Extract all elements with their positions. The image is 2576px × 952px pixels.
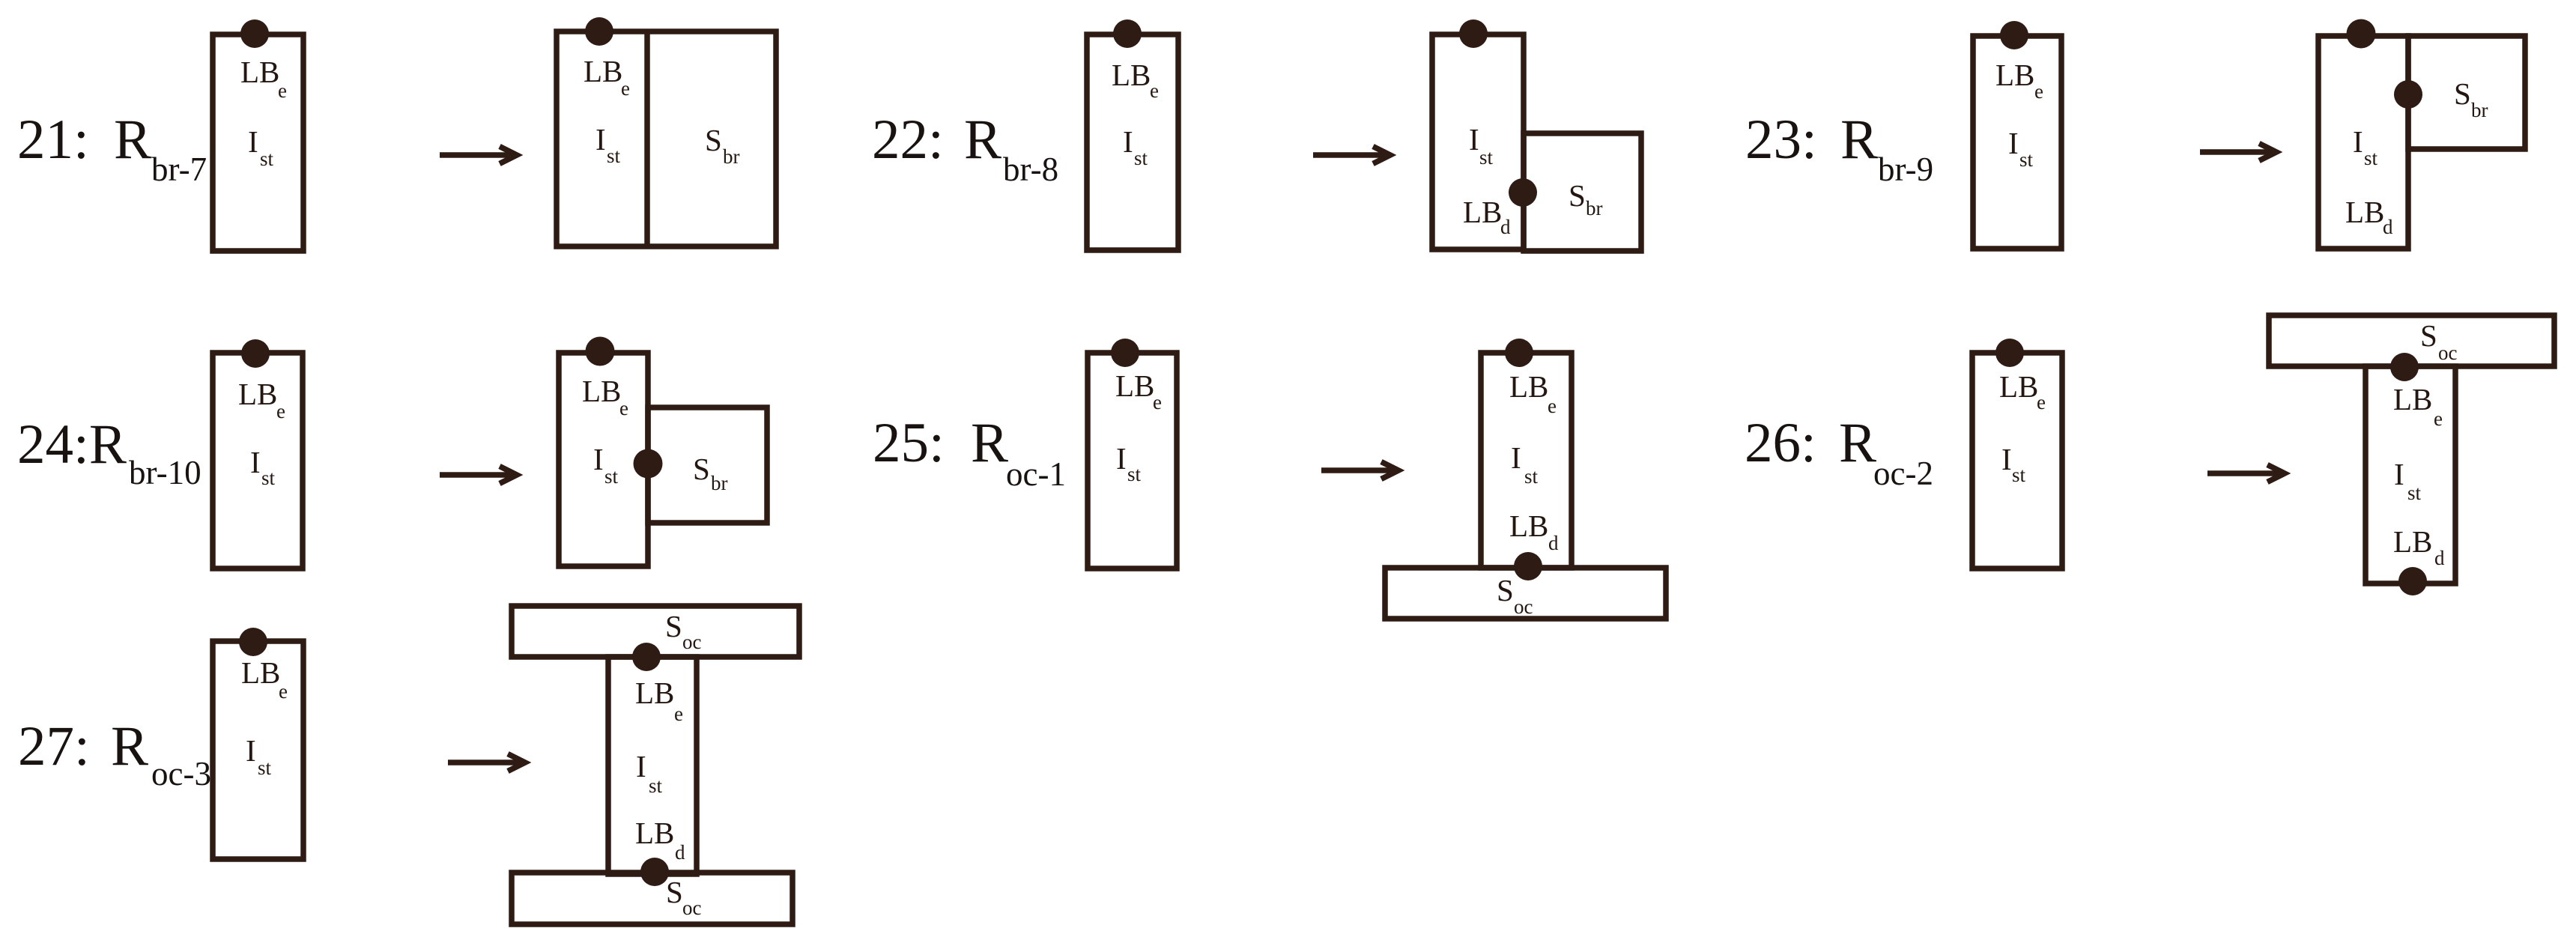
rule 21 LHS node dot: [240, 19, 269, 48]
rule 22 RHS top node dot: [1459, 19, 1488, 48]
rule 25 RHS junction node dot: [1514, 552, 1542, 580]
rule 25 RHS top node dot: [1505, 339, 1533, 367]
svg-text:I: I: [1469, 122, 1479, 157]
svg-text:st: st: [261, 467, 276, 489]
svg-text:I: I: [2394, 457, 2404, 491]
rule 22 LHS node dot: [1113, 19, 1142, 48]
rule 21 RHS box outer: [557, 31, 776, 246]
svg-text:26:: 26:: [1745, 412, 1816, 474]
svg-text:S: S: [666, 875, 683, 909]
svg-text:e: e: [278, 79, 287, 102]
rule 27 LHS node dot: [239, 628, 267, 656]
svg-text:e: e: [2037, 391, 2046, 413]
svg-text:R: R: [1840, 109, 1878, 171]
svg-text:e: e: [279, 680, 288, 703]
svg-text:S: S: [705, 123, 722, 157]
svg-text:25:: 25:: [873, 412, 945, 474]
rule 24 RHS tall box LB_e I_st: [559, 353, 648, 566]
svg-text:27:: 27:: [18, 715, 90, 777]
svg-text:LB: LB: [1509, 369, 1548, 404]
rule 27 RHS top S_oc bar: [512, 606, 799, 657]
svg-text:LB: LB: [635, 816, 674, 850]
svg-text:d: d: [1548, 532, 1559, 554]
svg-text:d: d: [1500, 216, 1511, 238]
rule 27 label R_oc-3: [18, 715, 211, 792]
rule 24 RHS S_br box: [648, 407, 767, 523]
rule 23 RHS top node dot: [2347, 19, 2376, 49]
rule 26 RHS S_oc bar: [2269, 315, 2554, 366]
rule 27 LHS box I_st: [213, 641, 303, 859]
svg-text:d: d: [675, 841, 685, 864]
svg-text:I: I: [1511, 440, 1521, 475]
svg-text:st: st: [1134, 147, 1148, 169]
rule 26 LHS box I_st: [1972, 353, 2062, 569]
svg-text:I: I: [2008, 126, 2019, 160]
svg-text:e: e: [2034, 80, 2043, 103]
rule 25 label R_oc-1: [873, 412, 1066, 493]
svg-text:br-10: br-10: [129, 454, 201, 491]
rule 25 RHS vertical box LB_e I_st LB_d: [1481, 353, 1572, 568]
svg-text:23:: 23:: [1745, 109, 1817, 171]
svg-text:LB: LB: [2393, 382, 2432, 416]
svg-text:LB: LB: [1999, 369, 2038, 404]
rule 22 RHS shared-edge node dot: [1509, 178, 1537, 207]
svg-text:st: st: [2012, 464, 2026, 486]
svg-text:st: st: [604, 465, 619, 488]
svg-text:e: e: [619, 397, 628, 419]
svg-text:oc-3: oc-3: [151, 755, 211, 792]
svg-text:LB: LB: [1995, 58, 2034, 92]
svg-text:LB: LB: [1463, 195, 1502, 229]
rule 25 LHS node dot: [1111, 339, 1139, 367]
svg-text:LB: LB: [238, 377, 277, 411]
svg-text:S: S: [665, 609, 682, 643]
svg-text:e: e: [621, 77, 630, 100]
svg-text:st: st: [2364, 147, 2378, 169]
svg-text:I: I: [2353, 124, 2363, 159]
svg-text:LB: LB: [584, 54, 622, 88]
rule 22 label R_br-8: [872, 109, 1058, 188]
svg-text:st: st: [649, 774, 663, 797]
svg-text:st: st: [2019, 148, 2034, 171]
svg-text:oc: oc: [682, 631, 702, 653]
svg-text:I: I: [2001, 442, 2012, 476]
svg-text:22:: 22:: [872, 109, 944, 171]
rule 21 RHS labels LB_e I_st S_br: [584, 54, 740, 168]
svg-text:br: br: [723, 145, 740, 168]
svg-text:st: st: [260, 148, 274, 170]
svg-text:S: S: [2454, 76, 2471, 111]
rule 24 LHS box I_st: [213, 353, 303, 569]
svg-text:br-8: br-8: [1003, 151, 1058, 188]
svg-text:LB: LB: [2345, 195, 2384, 229]
rule 22 RHS tall box I_st LB_d: [1432, 34, 1524, 249]
svg-text:oc-2: oc-2: [1873, 455, 1933, 492]
svg-text:oc: oc: [2438, 342, 2458, 364]
svg-text:24:R: 24:R: [17, 413, 127, 476]
svg-text:br-7: br-7: [151, 151, 207, 188]
svg-text:e: e: [1150, 79, 1159, 102]
rule 21 LHS box I_st: [213, 34, 303, 251]
svg-text:I: I: [1123, 124, 1133, 159]
rule 22 arrow: [1313, 147, 1390, 164]
svg-text:st: st: [1524, 465, 1539, 488]
svg-text:I: I: [636, 749, 646, 783]
rule 23 LHS node dot: [2000, 21, 2028, 49]
svg-text:I: I: [593, 442, 604, 476]
rule 25 LHS box I_st: [1088, 353, 1177, 569]
svg-text:I: I: [595, 122, 606, 157]
svg-text:LB: LB: [1509, 509, 1548, 543]
rule 27 arrow: [448, 754, 525, 771]
svg-text:e: e: [276, 400, 285, 422]
svg-text:I: I: [250, 445, 261, 479]
svg-text:st: st: [258, 757, 272, 779]
rule 21 arrow: [440, 147, 517, 164]
rule 26 label R_oc-2: [1745, 412, 1933, 492]
rule 24 arrow: [440, 467, 517, 484]
svg-text:R: R: [111, 715, 148, 777]
svg-text:R: R: [964, 109, 1001, 171]
svg-text:LB: LB: [240, 55, 279, 89]
svg-text:d: d: [2383, 216, 2393, 238]
rule 24 RHS shared-edge node dot: [634, 449, 663, 479]
rule 24 LHS node dot: [241, 339, 270, 368]
rule 24 RHS top node dot: [586, 337, 615, 366]
rule 21 label R_br-7: [17, 109, 207, 188]
svg-text:d: d: [2434, 547, 2445, 569]
svg-text:LB: LB: [2393, 524, 2432, 559]
svg-text:st: st: [2407, 482, 2422, 504]
rule 24 label R_br-10: [17, 413, 201, 491]
rule 26 LHS node dot: [1995, 339, 2024, 367]
rule 27 RHS bottom S_oc bar: [512, 873, 793, 924]
svg-text:LB: LB: [582, 374, 621, 408]
svg-text:LB: LB: [241, 655, 280, 690]
svg-text:e: e: [674, 703, 683, 725]
svg-text:st: st: [1127, 463, 1142, 485]
svg-text:LB: LB: [1112, 58, 1151, 92]
rule 23 RHS shared-edge node dot: [2394, 80, 2422, 109]
rule 23 RHS S_br box: [2408, 36, 2525, 149]
svg-text:S: S: [1569, 178, 1586, 213]
rule 22 LHS box I_st: [1087, 34, 1178, 250]
rule 26 arrow: [2207, 465, 2285, 482]
svg-text:R: R: [971, 412, 1008, 474]
rule 23 arrow: [2200, 144, 2276, 161]
rule 23 LHS box I_st: [1973, 36, 2061, 249]
rule 27 RHS bottom junction node dot: [640, 858, 669, 886]
svg-text:I: I: [246, 733, 256, 768]
rule 26 RHS bottom node dot: [2398, 567, 2427, 595]
svg-text:e: e: [2434, 407, 2443, 430]
svg-text:21:: 21:: [17, 109, 89, 171]
svg-text:LB: LB: [1115, 369, 1154, 403]
rule 26 RHS vertical box LB_e I_st LB_d: [2366, 366, 2455, 583]
svg-text:I: I: [248, 124, 258, 159]
svg-text:S: S: [2420, 318, 2437, 353]
svg-text:oc: oc: [682, 897, 702, 919]
svg-text:st: st: [607, 145, 621, 167]
rule 25 arrow: [1321, 462, 1398, 479]
rule 25 RHS S_oc bar: [1385, 568, 1666, 619]
svg-text:e: e: [1548, 395, 1557, 417]
svg-text:oc: oc: [1514, 595, 1533, 618]
svg-text:br: br: [1586, 197, 1603, 219]
rule 26 RHS top junction node dot: [2390, 353, 2419, 381]
svg-text:S: S: [1497, 573, 1514, 607]
rule 21 RHS divider wall: [644, 31, 650, 246]
svg-text:st: st: [1479, 146, 1494, 169]
svg-text:S: S: [693, 452, 710, 486]
svg-text:LB: LB: [635, 676, 674, 710]
rule 23 label R_br-9: [1745, 109, 1933, 188]
svg-text:br-9: br-9: [1878, 151, 1933, 188]
rule 21 RHS node dot: [585, 17, 613, 46]
svg-text:br: br: [711, 472, 728, 494]
svg-text:oc-1: oc-1: [1006, 455, 1066, 493]
rule 22 RHS S_br box: [1524, 133, 1641, 251]
rule 27 RHS top junction node dot: [632, 643, 661, 671]
svg-text:br: br: [2471, 99, 2488, 121]
svg-text:I: I: [1116, 441, 1127, 476]
rule 27 RHS vertical box LB_e I_st LB_d: [608, 657, 697, 874]
svg-text:e: e: [1153, 391, 1162, 413]
rule 23 RHS tall box I_st LB_d: [2318, 36, 2408, 249]
svg-text:R: R: [114, 109, 151, 171]
svg-text:R: R: [1839, 412, 1876, 474]
